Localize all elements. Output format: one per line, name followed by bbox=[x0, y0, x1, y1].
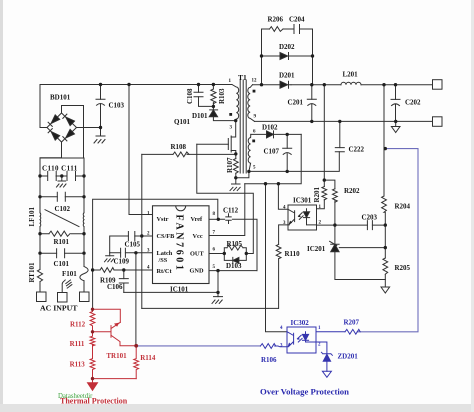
AC connector square 3 bbox=[80, 292, 90, 302]
svg-text:R106: R106 bbox=[261, 356, 277, 364]
optocoupler IC301 box bbox=[288, 205, 317, 230]
wire IC302 pin2 to ZD201 bbox=[316, 342, 327, 354]
svg-text:R112: R112 bbox=[70, 321, 86, 329]
ground (C202) open triangle bbox=[391, 127, 400, 133]
wire: aux gnd row to C222 bbox=[249, 152, 339, 172]
svg-text:IC302: IC302 bbox=[291, 319, 310, 327]
svg-text:C201: C201 bbox=[288, 99, 304, 107]
svg-text:R114: R114 bbox=[140, 354, 156, 362]
transistor TR101 bbox=[93, 322, 137, 345]
wire: snubber left vertical bbox=[261, 29, 263, 85]
wire: latch vertical x=135.9 bbox=[135, 253, 137, 346]
wire: TL431 ref wire bbox=[339, 247, 385, 249]
svg-text:Vref: Vref bbox=[191, 216, 204, 223]
svg-text:/SS: /SS bbox=[158, 257, 168, 264]
svg-text:D101: D101 bbox=[192, 112, 208, 120]
wire: Vcc feed from aux bbox=[209, 184, 245, 236]
transformer T1 core bbox=[240, 80, 246, 173]
svg-text:CS/FB: CS/FB bbox=[157, 233, 176, 240]
wire: R110 return line bbox=[142, 307, 279, 309]
ground (thermal) red arrow bbox=[88, 383, 98, 391]
svg-text:Vcc: Vcc bbox=[193, 233, 203, 240]
wire: R103 branch top bbox=[212, 85, 214, 90]
resistor R107 bbox=[233, 159, 238, 174]
phase dot primary bbox=[229, 113, 232, 116]
capacitor C202 bbox=[391, 99, 400, 105]
svg-text:R103: R103 bbox=[218, 88, 226, 104]
wire: GND symbol stem pin5 bbox=[217, 292, 219, 296]
resistor R109 bbox=[100, 268, 114, 273]
svg-text:C103: C103 bbox=[109, 102, 125, 110]
svg-text:R105: R105 bbox=[227, 240, 243, 248]
wire IC302 pin1 to R207 bbox=[316, 331, 345, 333]
wire: snubber right vertical bbox=[312, 29, 314, 85]
svg-text:C107: C107 bbox=[264, 148, 280, 156]
svg-text:OUT: OUT bbox=[190, 251, 204, 258]
wire: C112 row bbox=[218, 219, 257, 270]
svg-text:R101: R101 bbox=[54, 238, 70, 246]
wire: C222 top bbox=[339, 121, 341, 147]
wire: TL431 cathode drop bbox=[334, 225, 336, 244]
resistor R103 bbox=[211, 89, 216, 104]
wire: top DC rail bbox=[40, 84, 232, 86]
resistor R206 bbox=[270, 27, 284, 32]
wire: R201 leads bbox=[317, 180, 325, 209]
svg-text:R108: R108 bbox=[171, 143, 187, 151]
wire: bridge top vertex jog to AC right rail bbox=[62, 106, 84, 159]
wire: D103 loop bbox=[224, 254, 246, 261]
ground (ZD201) open triangle bbox=[322, 371, 331, 377]
capacitor C203 bbox=[367, 221, 372, 230]
ground (R205) open triangle bbox=[381, 287, 390, 293]
wire: feed vertical to R201 node bbox=[323, 85, 325, 180]
svg-text:R205: R205 bbox=[395, 264, 411, 272]
capacitor C222 bbox=[335, 148, 344, 152]
optocoupler IC301 internals bbox=[288, 209, 317, 225]
diode D102 bbox=[267, 131, 274, 138]
resistor R101 bbox=[49, 231, 70, 236]
wire: aux Vcc line bbox=[245, 134, 301, 183]
ZD201 to ground bbox=[326, 361, 328, 371]
ground (C103) bbox=[94, 136, 105, 143]
transformer secondary winding bbox=[248, 85, 255, 122]
svg-text:IC101: IC101 bbox=[170, 286, 189, 294]
wire: IC301 pin4 drop bbox=[278, 184, 288, 210]
wire: snubber top row bbox=[262, 28, 313, 30]
wire: C109 row to pin3 bbox=[110, 252, 153, 254]
fuse F101 bbox=[80, 266, 88, 280]
transformer aux winding bbox=[248, 134, 251, 171]
wire: R110 bottom bbox=[278, 259, 280, 309]
wire: IC302 pin4 long drop bbox=[266, 184, 288, 332]
optocoupler IC302 internals bbox=[287, 332, 294, 347]
svg-text:L201: L201 bbox=[343, 71, 359, 79]
capacitor C107 bbox=[283, 148, 292, 154]
svg-text:R204: R204 bbox=[395, 203, 411, 211]
ground (C109) bbox=[105, 256, 114, 262]
capacitor C108 bbox=[194, 92, 203, 97]
wire: R109 pin4 row bbox=[93, 269, 153, 271]
thermistor RT101 bbox=[37, 269, 42, 281]
svg-text:AC INPUT: AC INPUT bbox=[40, 304, 78, 313]
bridge rectifier BD101 bbox=[47, 113, 77, 142]
svg-text:R206: R206 bbox=[268, 16, 284, 24]
wire: bridge bottom vertex jog to AC left rail bbox=[40, 142, 62, 158]
svg-text:R207: R207 bbox=[344, 319, 360, 327]
wire: C110/C111 row bbox=[40, 175, 84, 177]
resistor R205 bbox=[383, 258, 388, 274]
wire: C101 row bbox=[40, 252, 84, 254]
AC connector square 2 bbox=[58, 293, 68, 303]
resistor R202 bbox=[333, 189, 338, 202]
resistor R201 bbox=[322, 187, 327, 200]
svg-text:R202: R202 bbox=[344, 187, 360, 195]
svg-text:C108: C108 bbox=[186, 88, 194, 104]
svg-text:IC201: IC201 bbox=[307, 245, 326, 253]
wire: C107 branch bbox=[286, 134, 288, 171]
svg-text:R113: R113 bbox=[70, 360, 86, 368]
svg-text:ZD201: ZD201 bbox=[338, 353, 359, 361]
capacitor C101 bbox=[57, 249, 65, 258]
wire: gate lead bbox=[197, 143, 229, 145]
wire: pin5 GND row bbox=[209, 270, 257, 272]
svg-text:RT101: RT101 bbox=[28, 262, 36, 282]
ground (pin5 GND) bbox=[212, 297, 223, 304]
wire: right divider vertical bbox=[384, 85, 385, 287]
wire: bridge right vertex to C103 node bbox=[77, 127, 101, 129]
red bottom wire bbox=[93, 379, 137, 383]
inductor L201 bbox=[341, 82, 361, 84]
wire: TL431 anode bbox=[335, 252, 385, 280]
wire: R107 bottom to ground and pin5 bbox=[236, 171, 249, 184]
svg-text:C110 C111: C110 C111 bbox=[42, 165, 78, 173]
wire: primary GND line bbox=[124, 291, 218, 293]
wire: Vstr line from rail to pin 1 bbox=[129, 85, 153, 215]
wire: gate drive loop bbox=[197, 144, 254, 253]
wire: D101 to drain node bbox=[213, 117, 235, 121]
svg-text:GND: GND bbox=[190, 268, 204, 275]
svg-text:C202: C202 bbox=[405, 99, 421, 107]
zener diode ZD201 bbox=[321, 352, 332, 361]
AC earth pigtail bbox=[62, 280, 72, 293]
wire: C108 branch bbox=[199, 85, 214, 107]
wire: D102 row bbox=[251, 133, 301, 135]
wire: Vref line long bbox=[93, 199, 218, 309]
svg-text:D103: D103 bbox=[226, 262, 242, 270]
wire: C109 ground stem bbox=[109, 253, 111, 256]
FAN7601 IC box bbox=[153, 206, 210, 284]
svg-text:C109: C109 bbox=[114, 258, 130, 266]
wire: R202 branch bbox=[324, 180, 335, 225]
wire: secondary + rail bbox=[253, 84, 433, 86]
wire: AC left rail bbox=[39, 158, 41, 292]
wire: C201 branch bbox=[311, 85, 313, 122]
resistor R204 bbox=[382, 196, 387, 212]
wire: R108 sense line bbox=[142, 153, 236, 155]
wire: R101 row bbox=[40, 233, 84, 235]
capacitor C204 bbox=[294, 25, 300, 34]
svg-text:R111: R111 bbox=[70, 340, 85, 348]
wire: AC right rail bbox=[83, 158, 85, 292]
svg-text:D202: D202 bbox=[279, 43, 295, 51]
ground (C110/C111 mid) bbox=[57, 176, 67, 187]
wire: secondary 0V rail bbox=[255, 120, 433, 122]
svg-text:D102: D102 bbox=[262, 124, 278, 132]
wire: C105 branch bbox=[110, 236, 142, 253]
diode D201 bbox=[280, 81, 291, 88]
svg-text:BD101: BD101 bbox=[50, 94, 71, 102]
optocoupler IC302 box bbox=[287, 327, 316, 353]
line filter LF101 left coil bbox=[39, 213, 42, 227]
resistor R114 bbox=[134, 346, 139, 379]
blue OVP bus right bbox=[357, 149, 418, 332]
capacitor C105 bbox=[128, 232, 134, 241]
svg-text:IC301: IC301 bbox=[293, 197, 312, 205]
svg-text:12: 12 bbox=[252, 79, 258, 84]
svg-text:TR101: TR101 bbox=[106, 352, 127, 360]
wire: drain node to Q101 bbox=[231, 121, 236, 137]
phase dot aux bbox=[252, 140, 255, 143]
FAN7601 pin names and numbers bbox=[147, 212, 216, 276]
blue line to R106 bbox=[136, 345, 260, 347]
resistor R111 bbox=[90, 332, 95, 346]
capacitor C201 bbox=[307, 99, 316, 105]
svg-text:Over Voltage Protection: Over Voltage Protection bbox=[260, 387, 349, 397]
svg-text:C106: C106 bbox=[107, 283, 123, 291]
svg-text:LF101: LF101 bbox=[28, 207, 36, 227]
ground (R107) bbox=[230, 184, 240, 191]
svg-text:Datasheetdir: Datasheetdir bbox=[58, 393, 93, 400]
capacitor C112 bbox=[226, 214, 231, 224]
capacitor C111 bbox=[67, 172, 76, 181]
capacitor C106 bbox=[119, 279, 128, 283]
wire: R103 bottom to D101 bbox=[212, 102, 214, 110]
wire: C202 branch bbox=[395, 85, 397, 127]
red junction dots bbox=[91, 308, 138, 381]
resistor R113 bbox=[90, 344, 95, 378]
resistor R108 bbox=[173, 152, 189, 157]
transformer primary winding bbox=[232, 85, 239, 121]
capacitor C102 bbox=[57, 192, 65, 201]
svg-text:F101: F101 bbox=[62, 270, 77, 278]
shunt regulator IC201 bbox=[330, 241, 340, 251]
svg-text:Latch: Latch bbox=[157, 250, 173, 257]
svg-text:C204: C204 bbox=[289, 16, 305, 24]
svg-text:FAN7601: FAN7601 bbox=[174, 215, 185, 273]
resistor R207 bbox=[345, 329, 360, 334]
wire: pin8 stub bbox=[209, 218, 218, 220]
svg-text:C102: C102 bbox=[55, 205, 71, 213]
svg-text:D201: D201 bbox=[279, 72, 295, 80]
svg-text:R110: R110 bbox=[285, 250, 301, 258]
svg-text:R201: R201 bbox=[313, 186, 321, 202]
AC connector square 1 bbox=[37, 292, 47, 302]
red top wire bbox=[93, 309, 121, 322]
line filter LF101 right coil bbox=[82, 213, 85, 227]
resistor R110 bbox=[276, 244, 281, 258]
svg-text:Rt/Ct: Rt/Ct bbox=[157, 268, 173, 275]
wire: pin5 gnd drop bbox=[217, 271, 219, 293]
resistor R112 bbox=[90, 309, 95, 332]
svg-text:C203: C203 bbox=[362, 214, 378, 222]
output connector square 1 bbox=[433, 80, 443, 90]
capacitor C103 bbox=[96, 99, 105, 105]
wire R106 to IC302 pin3 bbox=[275, 345, 287, 348]
svg-text:Q101: Q101 bbox=[174, 118, 190, 126]
wire: R107 top lead bbox=[235, 154, 237, 159]
output connector square 2 bbox=[433, 117, 443, 127]
wire: left vertical from rail to bridge bbox=[40, 85, 47, 128]
svg-text:C105: C105 bbox=[125, 241, 141, 249]
transistor Q101 bbox=[228, 136, 231, 152]
svg-text:T1: T1 bbox=[238, 73, 247, 82]
capacitor C109 bbox=[121, 248, 126, 257]
wire: pin2 CS/FB stub bbox=[142, 235, 153, 237]
wire: pin6 OUT stub bbox=[209, 253, 224, 255]
wire: FB vertical x=141.8 bbox=[141, 154, 143, 308]
wire: C102 row bbox=[40, 196, 84, 198]
wire: TL431 cathode row bbox=[317, 224, 386, 226]
diode D103 bbox=[233, 257, 239, 263]
diode D101 bbox=[209, 110, 217, 117]
phase dot secondary bbox=[253, 90, 256, 93]
svg-text:R107: R107 bbox=[226, 157, 234, 173]
capacitor C110 bbox=[48, 172, 57, 181]
wire: C106 branch bbox=[123, 270, 125, 292]
svg-text:C222: C222 bbox=[349, 146, 365, 154]
diode D202 bbox=[280, 53, 291, 60]
wire: AC box top line bbox=[40, 157, 84, 159]
resistor R105 bbox=[227, 245, 243, 250]
svg-text:C101: C101 bbox=[54, 260, 70, 268]
wire: D202 row bbox=[262, 55, 313, 57]
wire: C103 branch vertical bbox=[100, 85, 102, 137]
resistor R106 bbox=[260, 344, 275, 349]
svg-text:C112: C112 bbox=[223, 207, 239, 215]
wire: R105 loop bbox=[224, 248, 246, 254]
svg-text:Vstr: Vstr bbox=[157, 216, 169, 223]
wire: Q101 source to R107 bbox=[231, 151, 236, 154]
LF101 coupling slash bbox=[45, 210, 79, 227]
wire: IC301 pin3 to R110 bbox=[279, 225, 288, 245]
